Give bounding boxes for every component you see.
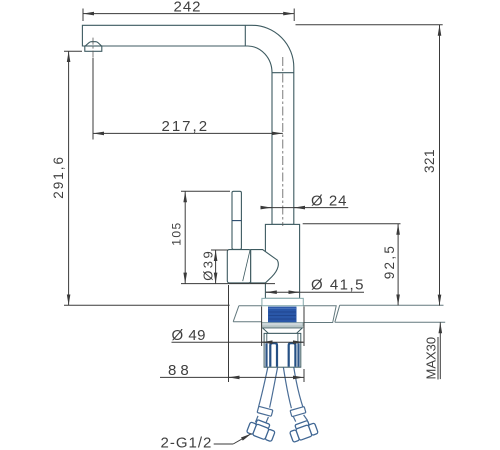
svg-text:Ø 24: Ø 24 [311, 193, 348, 210]
svg-text:217,2: 217,2 [162, 118, 210, 135]
svg-text:Ø 49: Ø 49 [172, 327, 207, 344]
svg-text:105: 105 [170, 221, 184, 246]
svg-text:Ø 41,5: Ø 41,5 [311, 277, 365, 294]
svg-text:Ø39: Ø39 [201, 249, 216, 281]
svg-text:2-G1/2: 2-G1/2 [161, 435, 213, 450]
svg-text:92,5: 92,5 [382, 244, 397, 279]
svg-text:88: 88 [168, 362, 193, 379]
svg-text:242: 242 [174, 0, 202, 16]
svg-text:MAX30: MAX30 [424, 337, 439, 380]
svg-text:321: 321 [422, 149, 437, 173]
svg-text:291,6: 291,6 [51, 155, 66, 199]
